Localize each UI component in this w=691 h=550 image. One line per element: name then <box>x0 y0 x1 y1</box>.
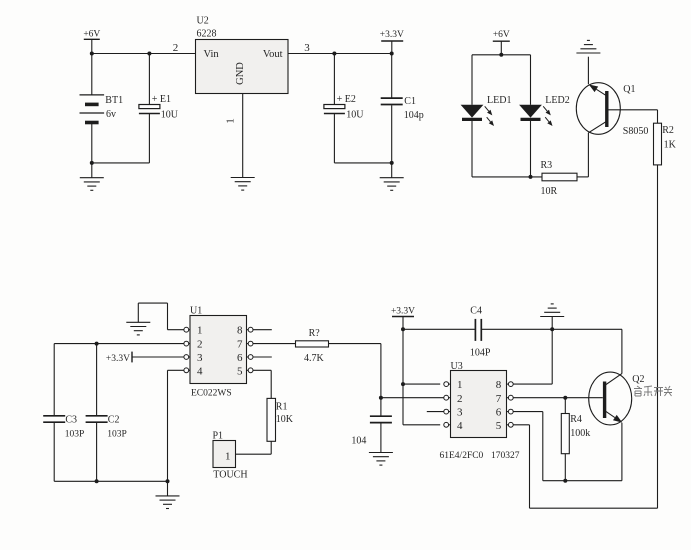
svg-text:+3.3V: +3.3V <box>391 306 415 316</box>
svg-text:1: 1 <box>225 451 231 463</box>
svg-text:1K: 1K <box>664 139 677 150</box>
svg-text:61E4/2FC0: 61E4/2FC0 <box>440 451 484 461</box>
svg-text:Q1: Q1 <box>623 84 635 95</box>
svg-text:104p: 104p <box>404 110 424 121</box>
svg-text:U1: U1 <box>190 305 202 316</box>
svg-text:S8050: S8050 <box>623 126 649 137</box>
svg-text:10R: 10R <box>541 186 558 197</box>
svg-text:3: 3 <box>197 352 203 364</box>
svg-text:+6V: +6V <box>83 30 100 40</box>
svg-text:8: 8 <box>237 325 243 337</box>
svg-text:6228: 6228 <box>197 29 217 40</box>
svg-text:+3.3V: +3.3V <box>106 354 130 364</box>
svg-text:1: 1 <box>457 379 463 391</box>
svg-text:C3: C3 <box>65 414 77 425</box>
svg-text:4: 4 <box>457 420 463 432</box>
svg-text:4.7K: 4.7K <box>304 353 325 364</box>
svg-text:7: 7 <box>237 339 243 351</box>
svg-text:2: 2 <box>173 42 179 54</box>
svg-text:1: 1 <box>197 325 203 337</box>
svg-text:R3: R3 <box>541 160 553 171</box>
svg-text:3: 3 <box>457 407 463 419</box>
svg-text:U3: U3 <box>451 361 463 372</box>
svg-text:EC022WS: EC022WS <box>191 389 232 399</box>
svg-text:+ E1: + E1 <box>152 94 171 105</box>
svg-text:6: 6 <box>496 407 502 419</box>
svg-text:104: 104 <box>351 435 366 446</box>
svg-text:C2: C2 <box>108 414 120 425</box>
svg-text:P1: P1 <box>213 430 224 441</box>
svg-text:LED2: LED2 <box>545 95 569 106</box>
svg-text:R2: R2 <box>662 125 674 136</box>
svg-text:R?: R? <box>309 328 321 339</box>
svg-text:4: 4 <box>197 365 203 377</box>
svg-text:8: 8 <box>496 379 502 391</box>
svg-text:10U: 10U <box>346 110 364 121</box>
svg-text:TOUCH: TOUCH <box>213 470 247 481</box>
svg-text:C1: C1 <box>404 96 416 107</box>
svg-text:104P: 104P <box>470 348 491 359</box>
svg-text:103P: 103P <box>65 429 85 439</box>
svg-text:R1: R1 <box>276 401 288 412</box>
svg-text:Q2: Q2 <box>632 374 644 385</box>
svg-text:6v: 6v <box>106 109 116 120</box>
svg-text:+6V: +6V <box>493 30 510 40</box>
svg-text:170327: 170327 <box>491 451 520 461</box>
svg-text:2: 2 <box>457 393 463 405</box>
svg-text:C4: C4 <box>470 305 482 316</box>
svg-text:2: 2 <box>197 339 203 351</box>
svg-text:R4: R4 <box>570 414 582 425</box>
svg-text:100k: 100k <box>570 428 590 439</box>
svg-text:1: 1 <box>225 118 237 124</box>
svg-text:GND: GND <box>235 62 246 85</box>
svg-text:+3.3V: +3.3V <box>380 30 404 40</box>
svg-text:BT1: BT1 <box>105 95 123 106</box>
svg-text:5: 5 <box>496 420 502 432</box>
svg-text:Vout: Vout <box>263 49 283 60</box>
svg-text:Vin: Vin <box>204 49 220 60</box>
svg-text:7: 7 <box>496 393 502 405</box>
svg-text:6: 6 <box>237 352 243 364</box>
svg-text:10U: 10U <box>161 110 179 121</box>
svg-text:LED1: LED1 <box>487 95 511 106</box>
svg-text:5: 5 <box>237 365 243 377</box>
svg-text:10K: 10K <box>276 414 294 425</box>
svg-text:3: 3 <box>304 42 310 54</box>
svg-text:103P: 103P <box>107 429 127 439</box>
svg-text:+ E2: + E2 <box>337 94 356 105</box>
svg-text:U2: U2 <box>197 16 209 27</box>
